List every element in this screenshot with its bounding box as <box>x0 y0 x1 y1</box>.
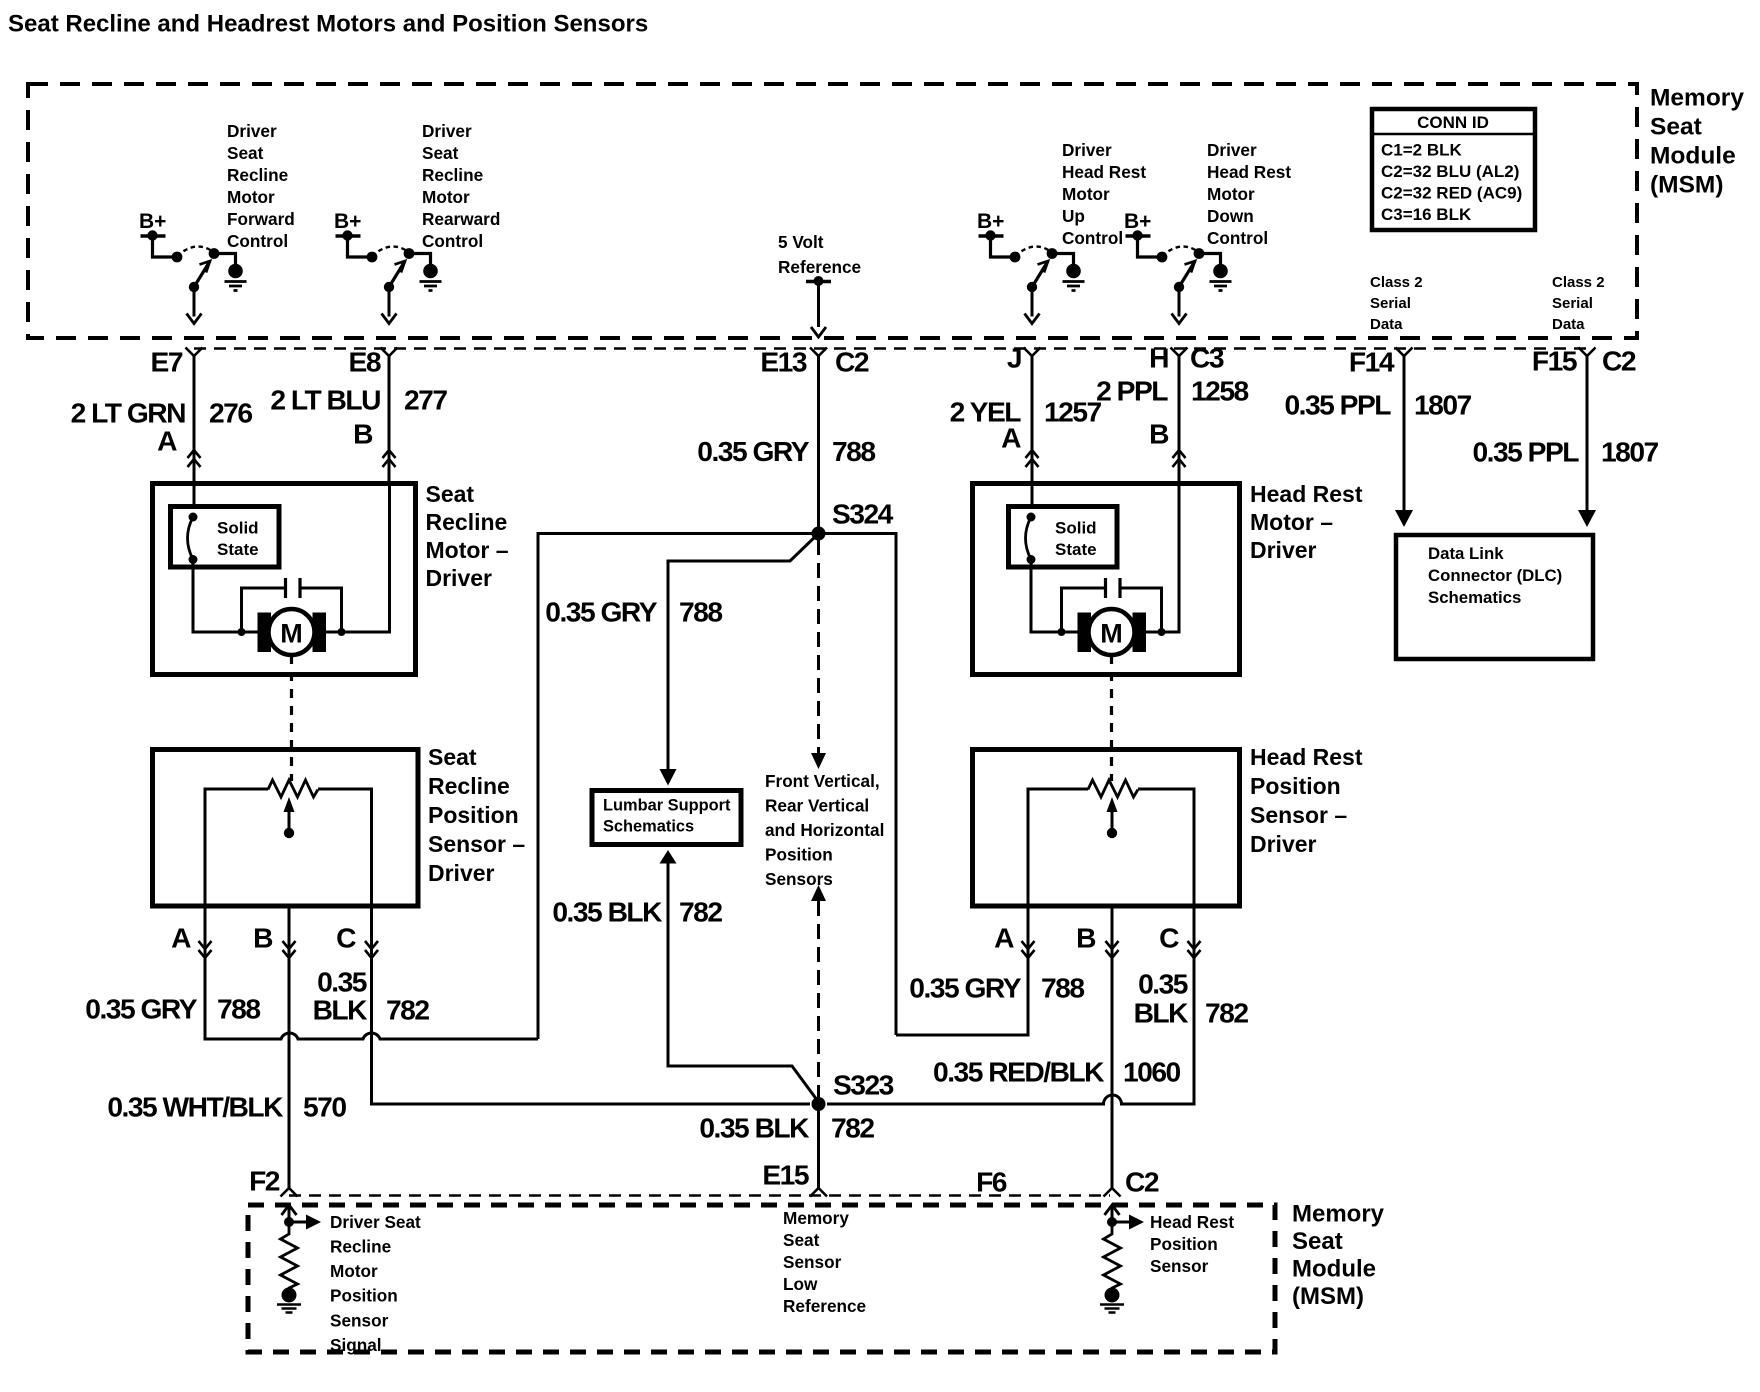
label head rest motor driver <box>1250 481 1363 563</box>
Memory Seat Module (MSM) top dashed box <box>28 84 1637 338</box>
svg-text:Recline: Recline <box>227 165 288 185</box>
dashed mechanical link: head rest motor to position sensor <box>1110 655 1113 781</box>
pin E15 <box>762 1159 827 1197</box>
label driver seat recline motor position sensor signal <box>330 1212 421 1355</box>
svg-text:2 LT BLU: 2 LT BLU <box>270 384 380 416</box>
head rest position sensor input (resistor to ground) <box>1100 1205 1144 1313</box>
label 0.35 WHT/BLK 570 circuit <box>107 1091 346 1123</box>
pin A seat recline position sensor <box>171 922 211 958</box>
svg-text:CONN ID: CONN ID <box>1417 113 1489 132</box>
svg-text:570: 570 <box>303 1091 346 1123</box>
wire S324 left branch to seat recline sensor pin A <box>538 534 819 1040</box>
svg-text:Serial: Serial <box>1370 295 1411 312</box>
solid state switch arc (seat recline) <box>188 513 198 565</box>
wire 0.35 GRY 788 : E13 to splice S324 <box>817 356 820 534</box>
svg-text:Position: Position <box>428 802 519 828</box>
svg-text:B: B <box>1076 922 1096 954</box>
label 2 LT BLU 277 circuit <box>270 384 447 416</box>
svg-text:Motor: Motor <box>422 187 470 207</box>
svg-text:J: J <box>1007 342 1021 374</box>
switch: driver head rest motor up control (with B+ and ground) <box>977 210 1085 323</box>
pin C head rest position sensor <box>1159 922 1200 958</box>
5 volt reference source symbol <box>806 276 831 337</box>
pin F15 connector C2 <box>1532 345 1636 377</box>
svg-text:State: State <box>1055 540 1097 559</box>
svg-text:C2: C2 <box>1602 345 1636 377</box>
svg-text:C: C <box>1159 922 1179 954</box>
svg-text:Position: Position <box>1150 1234 1218 1254</box>
pin C seat recline position sensor <box>336 922 378 958</box>
label class 2 serial data (F14) <box>1370 274 1423 333</box>
svg-text:Motor –: Motor – <box>1250 509 1333 535</box>
svg-text:0.35 GRY: 0.35 GRY <box>545 596 657 628</box>
svg-text:Driver: Driver <box>1250 831 1317 857</box>
svg-text:0.35 RED/BLK: 0.35 RED/BLK <box>933 1056 1105 1088</box>
svg-text:Sensor: Sensor <box>783 1252 842 1272</box>
svg-text:Recline: Recline <box>330 1237 391 1257</box>
svg-text:Sensor –: Sensor – <box>428 831 525 857</box>
svg-text:S323: S323 <box>833 1069 894 1101</box>
svg-text:H: H <box>1149 342 1168 374</box>
svg-text:Seat: Seat <box>1292 1228 1343 1255</box>
svg-text:0.35: 0.35 <box>1138 968 1188 1000</box>
pin E8 <box>349 346 398 378</box>
svg-text:C3: C3 <box>1190 342 1224 374</box>
potentiometer head rest position sensor <box>1028 780 1194 906</box>
wire 2 LT BLU 277 : E8 to seat recline motor pin B <box>383 356 396 484</box>
svg-text:0.35 WHT/BLK: 0.35 WHT/BLK <box>107 1091 284 1123</box>
svg-text:BLK: BLK <box>1134 997 1190 1029</box>
svg-text:Driver: Driver <box>227 121 277 141</box>
lumbar support schematics box <box>592 791 741 845</box>
svg-text:Driver Seat: Driver Seat <box>330 1212 421 1232</box>
svg-text:Recline: Recline <box>422 165 483 185</box>
driver seat recline motor position sensor signal input (resistor to ground) <box>277 1205 321 1313</box>
solid state box (head rest) <box>1009 507 1118 568</box>
svg-text:Module: Module <box>1650 143 1736 170</box>
wire 2 LT GRN 276 : E7 to seat recline motor pin A <box>188 356 201 506</box>
label 0.35 GRY 788 circuit (seat sensor A) <box>85 993 260 1025</box>
wire 2 PPL 1258 : H to head rest motor pin B <box>1173 356 1186 484</box>
svg-text:Head Rest: Head Rest <box>1250 744 1363 770</box>
capacitor across seat recline motor <box>238 578 346 636</box>
svg-text:Driver: Driver <box>1207 140 1257 160</box>
solid state switch arc (head rest) <box>1026 513 1036 565</box>
svg-text:Data Link: Data Link <box>1428 544 1504 563</box>
svg-text:A: A <box>1001 422 1021 454</box>
svg-text:Solid: Solid <box>217 518 259 537</box>
label seat recline motor driver <box>426 481 509 591</box>
svg-text:Driver: Driver <box>426 565 493 591</box>
pin F2 <box>249 1165 297 1197</box>
svg-text:A: A <box>171 922 191 954</box>
svg-text:A: A <box>994 922 1014 954</box>
svg-text:1258: 1258 <box>1191 375 1249 407</box>
svg-text:277: 277 <box>404 384 447 416</box>
wire S324 to lumbar support schematics <box>668 534 819 771</box>
svg-text:State: State <box>217 540 259 559</box>
Memory Seat Module (MSM) bottom label <box>1292 1200 1385 1310</box>
pin F6 connector C2 <box>976 1166 1159 1198</box>
svg-text:S324: S324 <box>832 498 894 530</box>
svg-text:Reference: Reference <box>778 257 861 277</box>
svg-text:0.35 PPL: 0.35 PPL <box>1472 436 1579 468</box>
svg-text:Seat Recline and Headrest Moto: Seat Recline and Headrest Motors and Pos… <box>8 10 648 37</box>
svg-text:0.35 BLK: 0.35 BLK <box>552 896 663 928</box>
capacitor across head rest motor <box>1058 578 1166 636</box>
svg-text:Serial: Serial <box>1552 295 1593 312</box>
svg-text:Head Rest: Head Rest <box>1062 162 1146 182</box>
svg-text:C: C <box>336 922 356 954</box>
svg-text:B+: B+ <box>1124 210 1151 233</box>
svg-text:Sensor –: Sensor – <box>1250 802 1347 828</box>
svg-text:Rearward: Rearward <box>422 209 500 229</box>
pin E7 <box>151 346 203 378</box>
splice S323 <box>812 1069 894 1111</box>
switch: driver seat recline motor forward control (with B+ and ground) <box>139 210 247 323</box>
svg-text:2 PPL: 2 PPL <box>1096 375 1168 407</box>
svg-text:Driver: Driver <box>1250 537 1317 563</box>
switch: driver head rest motor down control (with B+ and ground) <box>1124 210 1232 323</box>
wire solid state to motor (seat recline) <box>193 560 258 633</box>
svg-text:Class 2: Class 2 <box>1552 274 1605 291</box>
label 2 LT GRN 276 circuit <box>71 397 253 429</box>
wire 0.35 BLK 782 : S323 to E15 <box>817 1104 820 1188</box>
svg-text:(MSM): (MSM) <box>1292 1283 1364 1310</box>
wire 0.35 RED/BLK 1060 : sensor B to F6 <box>1111 906 1114 1188</box>
svg-text:Control: Control <box>227 231 288 251</box>
motor M head rest <box>1078 609 1147 655</box>
svg-text:Low: Low <box>783 1274 818 1294</box>
svg-text:Motor: Motor <box>227 187 275 207</box>
wire pin B to motor (seat recline) <box>325 484 390 632</box>
svg-text:E13: E13 <box>760 346 806 378</box>
svg-text:Class 2: Class 2 <box>1370 274 1423 291</box>
svg-text:Rear Vertical: Rear Vertical <box>765 795 869 815</box>
label front vertical rear vertical and horizontal position sensors <box>765 771 884 889</box>
wire 2 YEL 1257 : J to head rest motor pin A <box>1026 356 1039 506</box>
svg-text:Driver: Driver <box>428 860 495 886</box>
svg-text:BLK: BLK <box>313 994 369 1026</box>
svg-text:Position: Position <box>330 1286 398 1306</box>
svg-text:Motor: Motor <box>330 1261 378 1281</box>
potentiometer wiper (seat recline) <box>284 797 295 838</box>
label 0.35 BLK 782 circuit (E15) <box>699 1112 874 1144</box>
svg-text:E7: E7 <box>151 346 183 378</box>
pin A head rest position sensor <box>994 922 1034 958</box>
svg-text:Seat: Seat <box>783 1230 820 1250</box>
svg-text:C3=16 BLK: C3=16 BLK <box>1381 205 1472 224</box>
svg-text:Solid: Solid <box>1055 518 1097 537</box>
pin F14 <box>1349 346 1413 378</box>
svg-text:Data: Data <box>1370 316 1403 333</box>
svg-text:Module: Module <box>1292 1255 1376 1282</box>
solid state box (seat recline) <box>171 507 280 568</box>
svg-text:Lumbar Support: Lumbar Support <box>603 797 731 815</box>
svg-text:M: M <box>1100 618 1123 648</box>
label 5 volt reference <box>778 232 861 277</box>
svg-text:788: 788 <box>1041 972 1084 1004</box>
label seat recline position sensor driver <box>428 744 525 886</box>
svg-text:Reference: Reference <box>783 1296 866 1316</box>
wire lumbar support to splice S323 (0.35 BLK 782) <box>660 850 819 1102</box>
svg-text:C2=32 BLU (AL2): C2=32 BLU (AL2) <box>1381 162 1519 181</box>
pin E13 connector C2 <box>760 346 869 378</box>
label 0.35 PPL 1807 circuit (F15) <box>1472 436 1658 468</box>
Memory Seat Module (MSM) bottom dashed box <box>248 1205 1275 1352</box>
svg-text:E8: E8 <box>349 346 381 378</box>
label 0.35 BLK 782 circuit (lumbar) <box>552 896 722 928</box>
wire 0.35 GRY 788 : sensor A to 5V net (head rest) <box>896 906 1028 1035</box>
label 0.35 GRY 788 circuit (lumbar) <box>545 596 722 628</box>
svg-text:C2=32 RED (AC9): C2=32 RED (AC9) <box>1381 183 1522 202</box>
svg-text:Signal: Signal <box>330 1335 382 1355</box>
label 0.35 GRY 788 circuit (E13) <box>697 435 875 467</box>
svg-text:Control: Control <box>1207 228 1268 248</box>
label driver head rest motor up control <box>1062 140 1146 248</box>
svg-text:0.35 BLK: 0.35 BLK <box>699 1112 810 1144</box>
wire 0.35 WHT/BLK 570 : sensor B to F2 <box>288 906 291 1188</box>
wire S324 right branch to head rest sensor pin A <box>819 534 897 1036</box>
svg-text:B+: B+ <box>139 210 166 233</box>
label driver seat recline motor rearward control <box>422 121 500 251</box>
svg-text:Sensor: Sensor <box>330 1310 389 1330</box>
wire 0.35 BLK 782 : head rest sensor C to splice S323 <box>827 906 1194 1104</box>
svg-text:Seat: Seat <box>426 481 475 507</box>
pin B head rest position sensor <box>1076 922 1118 958</box>
svg-text:Driver: Driver <box>1062 140 1112 160</box>
potentiometer seat recline position sensor <box>205 780 372 906</box>
svg-text:Head Rest: Head Rest <box>1207 162 1291 182</box>
label head rest position sensor <box>1150 1212 1234 1276</box>
svg-text:A: A <box>157 425 177 457</box>
svg-text:0.35 GRY: 0.35 GRY <box>909 972 1021 1004</box>
label memory seat sensor low reference <box>783 1208 866 1316</box>
svg-text:Data: Data <box>1552 316 1585 333</box>
svg-text:Seat: Seat <box>1650 114 1702 141</box>
svg-text:and Horizontal: and Horizontal <box>765 820 884 840</box>
svg-text:782: 782 <box>679 896 722 928</box>
svg-text:Seat: Seat <box>227 143 264 163</box>
svg-text:5 Volt: 5 Volt <box>778 232 824 252</box>
svg-text:Position: Position <box>1250 773 1341 799</box>
svg-text:Schematics: Schematics <box>1428 588 1521 607</box>
svg-text:Head Rest: Head Rest <box>1150 1212 1234 1232</box>
seat recline motor driver box <box>153 484 416 675</box>
svg-text:Sensor: Sensor <box>1150 1256 1209 1276</box>
svg-text:1807: 1807 <box>1601 436 1659 468</box>
svg-text:Seat: Seat <box>422 143 459 163</box>
svg-text:Sensors: Sensors <box>765 869 833 889</box>
svg-text:C1=2 BLK: C1=2 BLK <box>1381 140 1462 159</box>
svg-text:1257: 1257 <box>1044 396 1102 428</box>
svg-text:Up: Up <box>1062 206 1085 226</box>
wire 0.35 PPL 1807 : F14 to DLC <box>1395 356 1413 527</box>
svg-text:M: M <box>280 618 303 648</box>
pin H connector C3 <box>1149 342 1224 374</box>
connector boundary dashed line (bottom) <box>289 1194 1110 1197</box>
svg-text:Driver: Driver <box>422 121 472 141</box>
svg-text:Down: Down <box>1207 206 1254 226</box>
arrow into lumbar support box <box>660 769 677 786</box>
svg-text:276: 276 <box>209 397 252 429</box>
svg-text:Motor –: Motor – <box>426 537 509 563</box>
svg-text:E15: E15 <box>762 1159 808 1191</box>
label 0.35 BLK 782 circuit (seat sensor C) <box>313 966 430 1026</box>
motor M seat recline <box>258 609 327 655</box>
svg-text:C2: C2 <box>835 346 869 378</box>
svg-text:788: 788 <box>832 435 875 467</box>
svg-text:B+: B+ <box>334 210 361 233</box>
svg-text:B+: B+ <box>977 210 1004 233</box>
svg-text:0.35 GRY: 0.35 GRY <box>85 993 197 1025</box>
svg-text:Memory: Memory <box>1292 1200 1385 1227</box>
svg-text:Forward: Forward <box>227 209 295 229</box>
pin B seat recline position sensor <box>253 922 295 958</box>
label driver head rest motor down control <box>1207 140 1291 248</box>
svg-text:Seat: Seat <box>428 744 477 770</box>
svg-text:Recline: Recline <box>428 773 510 799</box>
connector C2/C3 boundary dashed line (top) <box>194 347 1590 350</box>
label 2 PPL 1258 circuit <box>1096 375 1248 407</box>
svg-text:Control: Control <box>1062 228 1123 248</box>
svg-text:Control: Control <box>422 231 483 251</box>
svg-text:Memory: Memory <box>1650 85 1744 112</box>
svg-text:788: 788 <box>679 596 722 628</box>
label driver seat recline motor forward control <box>227 121 295 251</box>
CONN ID table <box>1372 109 1535 230</box>
svg-text:788: 788 <box>217 993 260 1025</box>
label 0.35 PPL 1807 circuit (F14) <box>1284 389 1471 421</box>
wire solid state to motor (head rest) <box>1031 560 1078 633</box>
svg-text:Head Rest: Head Rest <box>1250 481 1363 507</box>
label 0.35 RED/BLK 1060 circuit <box>933 1056 1180 1088</box>
svg-text:F6: F6 <box>976 1166 1007 1198</box>
svg-text:C2: C2 <box>1125 1166 1159 1198</box>
svg-text:Connector (DLC): Connector (DLC) <box>1428 566 1562 585</box>
wire pin B to motor (head rest) <box>1145 484 1179 632</box>
svg-text:B: B <box>253 922 273 954</box>
svg-text:Recline: Recline <box>426 509 508 535</box>
svg-text:(MSM): (MSM) <box>1650 172 1723 199</box>
head rest motor driver box <box>973 484 1240 675</box>
svg-text:F14: F14 <box>1349 346 1395 378</box>
svg-text:Motor: Motor <box>1207 184 1255 204</box>
Data Link Connector (DLC) Schematics box <box>1396 535 1593 659</box>
svg-text:F2: F2 <box>249 1165 280 1197</box>
svg-text:1807: 1807 <box>1414 389 1472 421</box>
switch: driver seat recline motor rearward control (with B+ and ground) <box>334 210 442 323</box>
svg-text:B: B <box>1149 418 1169 450</box>
seat recline position sensor driver box <box>153 750 419 907</box>
svg-text:782: 782 <box>1205 997 1248 1029</box>
dashed wire from position sensors to splice S323 <box>811 885 826 1098</box>
svg-text:Motor: Motor <box>1062 184 1110 204</box>
label 0.35 BLK 782 circuit (head rest sensor C) <box>1134 968 1249 1029</box>
wire 0.35 GRY 788 : sensor A to 5V net (seat recline) <box>205 906 538 1039</box>
wire 0.35 PPL 1807 : F15 to DLC <box>1578 356 1596 527</box>
head rest position sensor driver box <box>973 750 1240 907</box>
svg-text:0.35 PPL: 0.35 PPL <box>1284 389 1391 421</box>
svg-text:Position: Position <box>765 844 833 864</box>
svg-text:B: B <box>353 418 373 450</box>
label class 2 serial data (F15) <box>1552 274 1605 333</box>
svg-text:Front Vertical,: Front Vertical, <box>765 771 880 791</box>
svg-text:Memory: Memory <box>783 1208 849 1228</box>
dashed mechanical link: seat recline motor to position sensor <box>290 655 293 781</box>
dashed wire S324 to front vertical rear vertical and horizontal position sensors <box>811 540 826 769</box>
svg-text:782: 782 <box>386 994 429 1026</box>
label 0.35 GRY 788 circuit (head rest sensor A) <box>909 972 1084 1004</box>
svg-text:0.35 GRY: 0.35 GRY <box>697 435 809 467</box>
label 2 YEL 1257 circuit <box>950 396 1102 428</box>
svg-text:782: 782 <box>831 1112 874 1144</box>
svg-text:Schematics: Schematics <box>603 818 694 836</box>
label head rest position sensor driver <box>1250 744 1363 857</box>
pin J <box>1007 342 1041 374</box>
svg-text:F15: F15 <box>1532 345 1577 377</box>
wire 0.35 BLK 782 : sensor C to splice S323 <box>372 906 811 1104</box>
potentiometer wiper (head rest) <box>1107 797 1118 838</box>
svg-text:1060: 1060 <box>1123 1056 1181 1088</box>
splice S324 <box>812 498 894 541</box>
